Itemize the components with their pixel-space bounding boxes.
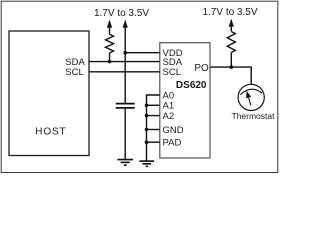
svg-text:SCL: SCL xyxy=(163,67,181,78)
svg-text:1.7V to 3.5V: 1.7V to 3.5V xyxy=(202,7,257,18)
svg-text:A2: A2 xyxy=(163,111,175,122)
svg-text:GND: GND xyxy=(163,125,184,136)
svg-text:PAD: PAD xyxy=(163,138,182,149)
svg-text:Thermostat: Thermostat xyxy=(232,111,276,121)
svg-text:SCL: SCL xyxy=(65,67,83,78)
svg-text:1.7V to 3.5V: 1.7V to 3.5V xyxy=(94,8,149,19)
svg-text:HOST: HOST xyxy=(35,126,66,137)
svg-text:DS620: DS620 xyxy=(176,80,207,91)
svg-text:PO: PO xyxy=(194,63,209,74)
